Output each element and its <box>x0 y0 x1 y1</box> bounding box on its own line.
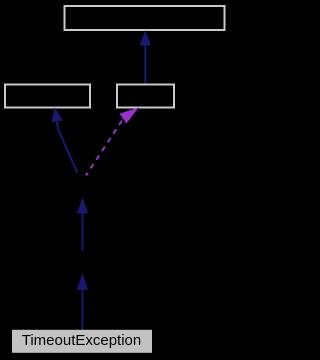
inheritance graph <box>0 0 231 360</box>
node box: left parent class <box>5 85 90 108</box>
node box: right parent class <box>117 85 174 108</box>
node box: top base class (text invisible on black) <box>65 6 225 30</box>
arrow: TimeoutException to hidden node (vertical solid) <box>78 275 88 330</box>
arrow: right parent to top base (solid midnightblue) <box>140 32 150 84</box>
node box: TimeoutException (current class, gray fill) <box>13 331 151 352</box>
arrow: hidden node to hidden node (vertical solid) <box>78 199 88 252</box>
svg-text:TimeoutException: TimeoutException <box>22 332 142 349</box>
arrow: hidden node to right parent (dashed darkorchid diagonal) <box>86 108 138 175</box>
arrow: hidden node to left parent (solid midnightblue diagonal) <box>52 109 78 174</box>
